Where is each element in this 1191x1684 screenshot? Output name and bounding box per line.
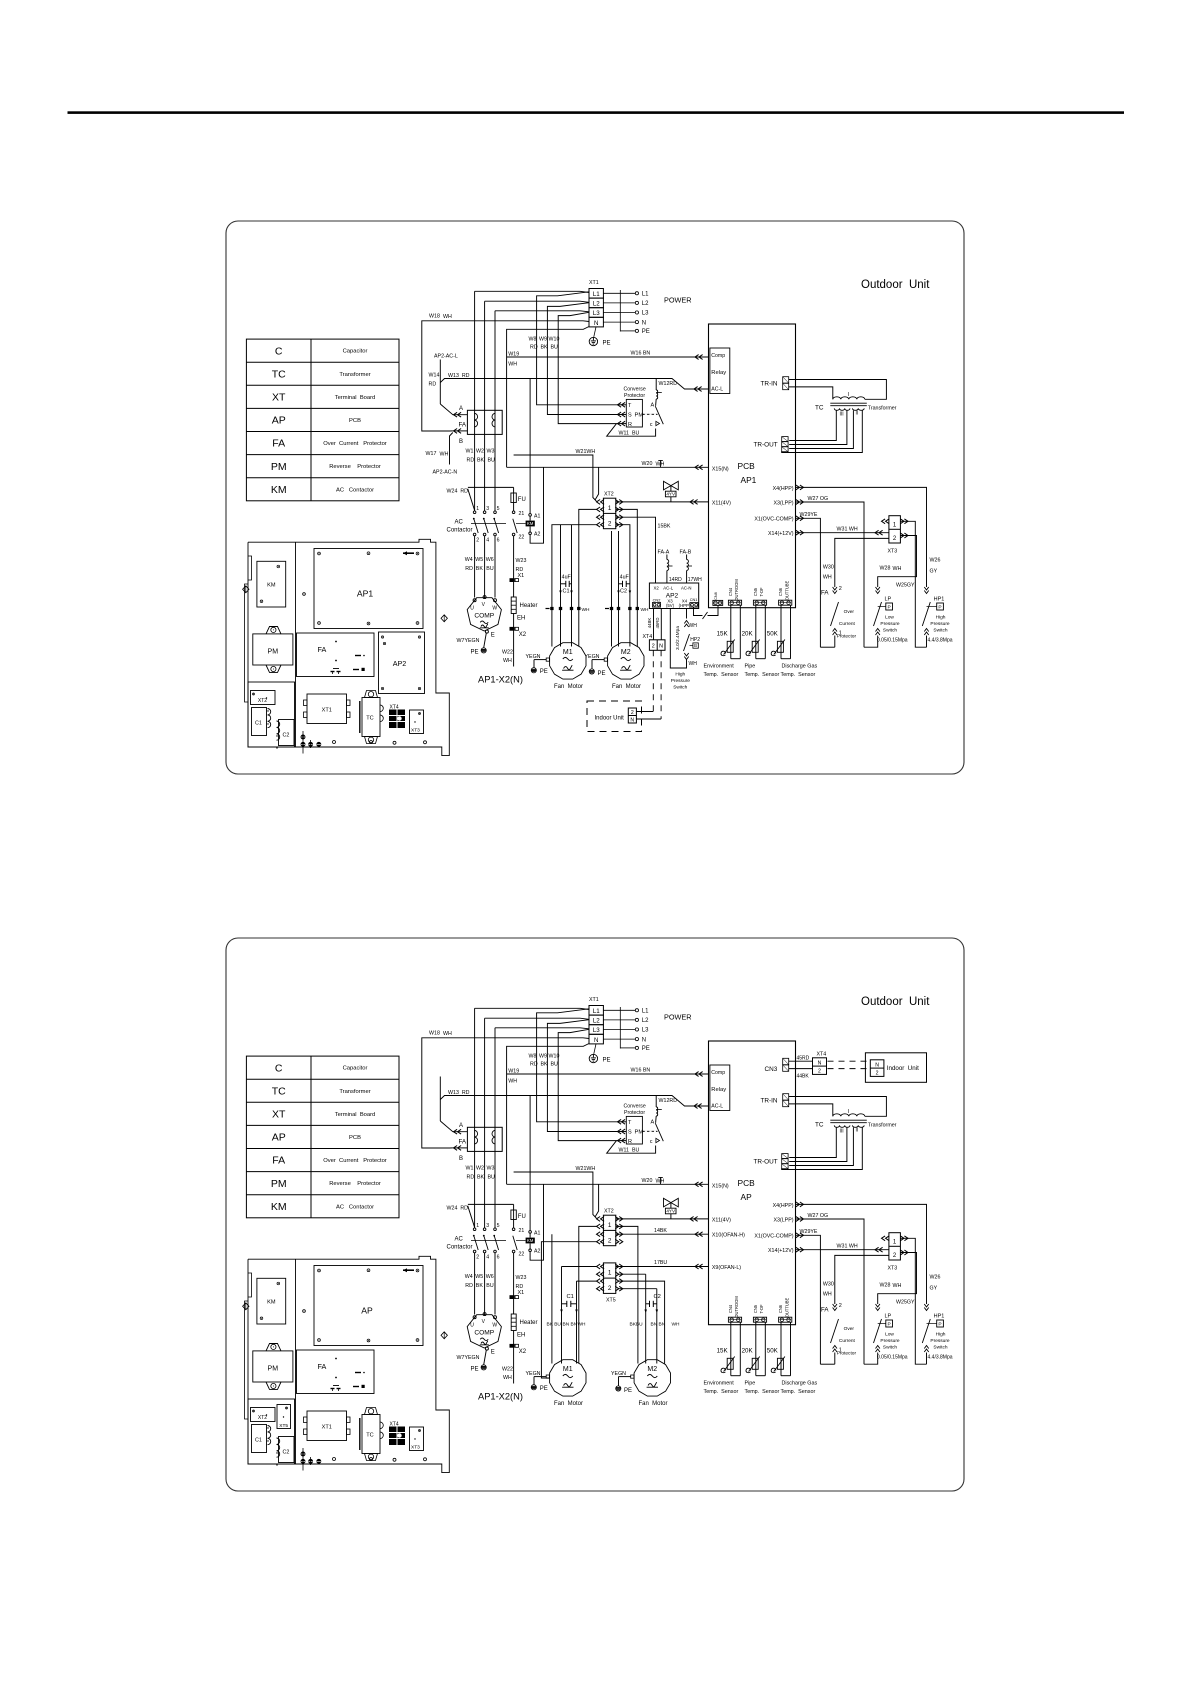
svg-text:XT3: XT3 <box>411 728 420 734</box>
PM contact blade <box>655 1123 663 1141</box>
contactor coil KM <box>526 1238 535 1244</box>
svg-text:U: U <box>470 1323 474 1329</box>
svg-text:14BK: 14BK <box>654 1228 667 1234</box>
svg-text:Relay: Relay <box>711 370 726 376</box>
svg-text:17WH: 17WH <box>688 577 702 583</box>
FA-B coil to AC-N <box>686 555 688 560</box>
svg-text:AP1-X2(N): AP1-X2(N) <box>478 675 523 685</box>
svg-text:C2: C2 <box>283 733 290 739</box>
svg-text:HP1: HP1 <box>934 1314 945 1320</box>
svg-text:W11 BU: W11 BU <box>619 1148 640 1154</box>
svg-text:B: B <box>459 1156 463 1162</box>
svg-text:FA-B: FA-B <box>680 550 692 556</box>
svg-text:44BK: 44BK <box>797 1073 810 1079</box>
svg-text:4uF: 4uF <box>620 575 630 581</box>
capacitor C1 in layout <box>252 708 267 736</box>
svg-text:c: c <box>650 422 653 428</box>
pipe temp sensor 20K <box>755 1322 757 1376</box>
svg-text:XT: XT <box>272 392 286 404</box>
svg-text:2: 2 <box>839 586 842 592</box>
svg-text:XT1: XT1 <box>589 997 599 1003</box>
overcurrent protector FA <box>467 410 502 434</box>
svg-text:W23: W23 <box>516 558 527 564</box>
svg-text:XT1: XT1 <box>322 1425 332 1431</box>
svg-text:L1: L1 <box>642 292 649 298</box>
lower left compartment <box>248 1399 295 1464</box>
svg-text:XT2: XT2 <box>258 1415 267 1421</box>
svg-text:C: C <box>275 345 283 357</box>
svg-text:AP2-AC-N: AP2-AC-N <box>433 470 458 476</box>
svg-text:X2: X2 <box>519 1349 527 1355</box>
contactor KM in layout <box>257 561 286 607</box>
svg-text:WH: WH <box>582 607 591 613</box>
svg-text:6: 6 <box>497 538 500 544</box>
svg-text:Relay: Relay <box>711 1087 726 1093</box>
svg-text:W30: W30 <box>823 1282 834 1288</box>
svg-text:BK: BK <box>477 458 485 464</box>
wire W3 BU phase L3 <box>495 1028 589 1029</box>
svg-text:WH: WH <box>823 1292 832 1298</box>
svg-text:X11(4V): X11(4V) <box>712 500 731 506</box>
wire W13 RD <box>440 1096 708 1107</box>
svg-text:3.0/2.4Mpa: 3.0/2.4Mpa <box>675 626 681 650</box>
M2 PE ground <box>616 1386 621 1391</box>
coil terminal A1 <box>529 1231 532 1234</box>
wire to FA terminal A <box>439 1077 441 1122</box>
svg-text:XT1: XT1 <box>589 280 599 286</box>
svg-text:FA: FA <box>459 1139 467 1146</box>
svg-text:TC: TC <box>272 368 286 380</box>
svg-text:Terminal Board: Terminal Board <box>335 395 376 401</box>
svg-text:Pipe: Pipe <box>745 1381 756 1387</box>
svg-text:W17: W17 <box>426 451 437 457</box>
svg-text:Pressure: Pressure <box>880 1338 900 1344</box>
wire XT2 to fan motor M2 right <box>616 509 638 646</box>
svg-text:C2: C2 <box>620 589 627 595</box>
reverse protector PM in layout <box>266 627 281 634</box>
svg-text:Switch: Switch <box>933 1345 947 1351</box>
svg-text:Environment: Environment <box>704 664 735 670</box>
wire W16 BN <box>507 356 709 358</box>
svg-text:3: 3 <box>486 506 489 512</box>
transformer TC <box>833 397 865 400</box>
svg-text:RD: RD <box>467 458 475 464</box>
svg-text:15K: 15K <box>717 1348 729 1355</box>
link CN1 to PCB CN8 <box>694 607 703 615</box>
svg-text:Transformer: Transformer <box>868 406 897 412</box>
svg-text:W25GY: W25GY <box>896 583 915 589</box>
svg-text:High: High <box>936 1332 946 1338</box>
svg-text:AC-L: AC-L <box>711 1104 723 1110</box>
PE ground symbol <box>594 327 596 337</box>
svg-text:COMP: COMP <box>474 1330 494 1337</box>
svg-text:CN4: CN4 <box>728 587 733 596</box>
svg-text:BU: BU <box>551 1062 559 1068</box>
solenoid valve 4YV <box>664 481 679 490</box>
discharge gas temp sensor 50K <box>780 1322 782 1376</box>
svg-text:4YV: 4YV <box>666 1209 676 1214</box>
svg-text:X10(OFAN-H): X10(OFAN-H) <box>712 1233 745 1239</box>
svg-text:Temp. Sensor: Temp. Sensor <box>704 672 739 678</box>
svg-text:4.4/3.8Mpa: 4.4/3.8Mpa <box>928 1355 953 1361</box>
svg-text:Over: Over <box>844 1326 855 1332</box>
svg-text:X3(LPP): X3(LPP) <box>773 1217 793 1223</box>
svg-text:W31 WH: W31 WH <box>837 526 858 532</box>
svg-text:A1: A1 <box>534 1230 540 1236</box>
svg-text:X11(4V): X11(4V) <box>712 1217 731 1223</box>
diamond marker left <box>243 1303 249 1310</box>
svg-text:KM: KM <box>271 484 287 496</box>
auxiliary contact 21 22 <box>512 511 515 514</box>
svg-text:X15(N): X15(N) <box>712 1184 729 1190</box>
wire W24 RD <box>468 1203 514 1205</box>
svg-text:AP1: AP1 <box>357 589 373 599</box>
svg-text:PE: PE <box>603 341 611 347</box>
svg-text:A: A <box>651 403 655 409</box>
svg-text:KM: KM <box>271 1201 287 1213</box>
svg-text:PCB: PCB <box>738 1178 756 1188</box>
svg-text:44BK: 44BK <box>647 618 652 629</box>
svg-text:AP: AP <box>272 1132 286 1144</box>
svg-text:YEGN: YEGN <box>585 654 600 660</box>
svg-text:TR-IN: TR-IN <box>761 1098 778 1105</box>
svg-text:Fan Motor: Fan Motor <box>554 1401 583 1407</box>
svg-text:WH: WH <box>508 1079 517 1085</box>
svg-text:CN6: CN6 <box>778 1304 783 1313</box>
svg-text:W25GY: W25GY <box>896 1300 915 1306</box>
svg-text:W12RD: W12RD <box>659 1098 678 1104</box>
fuse FU <box>513 1204 515 1210</box>
wire W9 BK to converse protector S <box>547 1020 617 1132</box>
svg-text:T-DF: T-DF <box>759 1304 764 1314</box>
svg-text:45RD: 45RD <box>797 1055 810 1061</box>
wire 17BU to X9(OFAN-L) <box>616 1266 709 1268</box>
svg-text:(HPP): (HPP) <box>679 603 691 608</box>
svg-text:X2: X2 <box>654 585 660 590</box>
svg-text:WH: WH <box>440 452 449 458</box>
svg-text:Temp. Sensor: Temp. Sensor <box>781 672 816 678</box>
solenoid valve 4YV <box>664 1198 679 1207</box>
indoor unit dashed box <box>587 701 642 732</box>
svg-text:AP1-X2(N): AP1-X2(N) <box>478 1392 523 1402</box>
svg-text:C1: C1 <box>567 1294 574 1300</box>
svg-text:W27 OG: W27 OG <box>808 1213 829 1219</box>
panel border (outdoor unit diagram 1) <box>226 221 964 774</box>
svg-text:PE: PE <box>471 1367 479 1373</box>
overcurrent protector FA in layout <box>297 1350 375 1394</box>
transformer secondary wires <box>789 411 836 441</box>
svg-text:BK: BK <box>477 1175 485 1181</box>
svg-text:W16 BN: W16 BN <box>631 351 651 357</box>
terminal XT3 in layout <box>410 710 424 734</box>
high pressure switch HP1 <box>924 1304 928 1311</box>
overcurrent protector FA <box>467 1127 502 1151</box>
svg-text:Comp: Comp <box>711 353 725 359</box>
svg-text:L1: L1 <box>593 291 600 298</box>
junction marks M1 leads <box>550 607 553 610</box>
terminal XT2 in layout <box>251 1408 276 1422</box>
compressor earth pin E <box>485 630 488 633</box>
svg-text:20K: 20K <box>742 1348 754 1355</box>
wire W25 GY XT3 to LP switch <box>878 536 917 588</box>
svg-text:W27 OG: W27 OG <box>808 496 829 502</box>
svg-text:21: 21 <box>519 511 525 517</box>
svg-text:II: II <box>856 1128 859 1134</box>
svg-text:22: 22 <box>519 535 525 541</box>
wire XT2 to fan motor M1 left <box>552 525 597 647</box>
wire XT2 to fan motor M1 right <box>579 509 597 646</box>
svg-text:Temp. Sensor: Temp. Sensor <box>745 672 780 678</box>
wire XT2-1 to X11(4V) <box>616 501 709 503</box>
svg-text:BU: BU <box>488 1175 496 1181</box>
svg-text:W28: W28 <box>880 1283 891 1289</box>
wires 45RD 44BK to XT4 <box>789 1060 813 1062</box>
wire W29 YE to overcurrent protector <box>796 518 821 647</box>
svg-text:BN BN: BN BN <box>563 1322 578 1328</box>
auxiliary contact 21 22 <box>512 1228 515 1231</box>
svg-text:17BU: 17BU <box>654 1260 667 1266</box>
svg-text:1: 1 <box>476 1223 479 1229</box>
svg-text:Low: Low <box>885 615 894 621</box>
svg-text:X14(+12V): X14(+12V) <box>768 1248 794 1254</box>
wire W11 BU <box>607 1141 656 1154</box>
svg-text:W12RD: W12RD <box>659 381 678 387</box>
svg-text:WH: WH <box>823 575 832 581</box>
svg-text:L2: L2 <box>642 301 649 307</box>
svg-text:PM: PM <box>271 461 287 473</box>
svg-text:WH: WH <box>893 1283 902 1289</box>
svg-text:Low: Low <box>885 1332 894 1338</box>
svg-text:L2: L2 <box>593 1018 600 1025</box>
svg-text:CN8: CN8 <box>714 592 718 600</box>
svg-text:PCB: PCB <box>738 461 756 471</box>
svg-text:XT4: XT4 <box>643 634 653 640</box>
svg-text:A1: A1 <box>534 513 540 519</box>
svg-text:III: III <box>840 412 844 418</box>
wire W21 WH <box>514 455 597 501</box>
svg-text:W: W <box>492 606 497 612</box>
terminal block XT3 <box>889 1233 901 1260</box>
svg-text:OUTROOM: OUTROOM <box>734 579 739 601</box>
svg-text:2: 2 <box>631 710 634 716</box>
wire W27 OG to low pressure switch <box>796 1219 865 1364</box>
svg-text:TR-OUT: TR-OUT <box>754 1159 778 1166</box>
svg-text:W22: W22 <box>502 1367 513 1373</box>
svg-text:L2: L2 <box>642 1018 649 1024</box>
wire XT2 to fan motor M1 left <box>551 1234 553 1363</box>
svg-text:COMP: COMP <box>474 613 494 620</box>
AC contactor KM main contacts <box>473 1228 476 1231</box>
wire W29 YE to overcurrent protector <box>796 1235 821 1364</box>
svg-text:BU: BU <box>486 1283 494 1289</box>
svg-text:X2: X2 <box>519 632 527 638</box>
compressor COMP <box>467 1315 501 1348</box>
wire W21 WH <box>514 1172 597 1218</box>
svg-text:S: S <box>628 413 632 419</box>
svg-text:4YV: 4YV <box>666 492 676 497</box>
wire to FA terminal A <box>439 360 441 405</box>
svg-text:OUTTUBE: OUTTUBE <box>784 580 789 600</box>
svg-text:A: A <box>459 406 463 412</box>
power disconnect line <box>619 1007 621 1049</box>
svg-text:CN4: CN4 <box>728 1304 733 1313</box>
svg-text:W29YE: W29YE <box>800 512 818 518</box>
wire XT3 to HP switch leg <box>900 1238 926 1364</box>
svg-text:M2: M2 <box>647 1366 657 1373</box>
svg-text:W16 BN: W16 BN <box>631 1068 651 1074</box>
svg-text:L1: L1 <box>593 1008 600 1015</box>
svg-text:EH: EH <box>517 616 525 622</box>
svg-text:AP: AP <box>741 1192 753 1202</box>
svg-text:Current: Current <box>839 1338 856 1344</box>
wire to high pressure switch <box>796 487 927 587</box>
wire W27 OG to low pressure switch <box>796 502 865 647</box>
wire W31 WH to XT3 <box>796 532 889 534</box>
svg-text:GY: GY <box>930 569 938 575</box>
high pressure switch HP2 loop <box>686 609 688 619</box>
terminal X2 <box>510 627 514 630</box>
svg-text:X1: X1 <box>518 573 525 579</box>
svg-text:CN3: CN3 <box>765 1066 778 1073</box>
svg-text:14RD: 14RD <box>669 577 682 583</box>
svg-text:FA-A: FA-A <box>658 550 670 556</box>
svg-text:W24 RD: W24 RD <box>447 489 469 495</box>
wire W20 WH <box>507 466 709 468</box>
svg-text:FA: FA <box>821 1307 829 1314</box>
svg-text:1: 1 <box>608 1222 612 1229</box>
svg-text:CN1: CN1 <box>690 597 698 602</box>
svg-text:Protector: Protector <box>624 393 645 399</box>
svg-text:W4: W4 <box>465 557 473 563</box>
svg-text:Contactor: Contactor <box>447 1245 473 1251</box>
wire to FA terminal B <box>453 1147 468 1149</box>
svg-text:X3(LPP): X3(LPP) <box>773 500 793 506</box>
transformer TC in layout <box>365 691 378 698</box>
svg-text:II: II <box>856 411 859 417</box>
svg-text:BU: BU <box>488 458 496 464</box>
wire W23 RD <box>513 536 515 579</box>
svg-text:Temp. Sensor: Temp. Sensor <box>781 1389 816 1395</box>
capacitor clamps <box>268 709 271 728</box>
contactor linkage dashed line <box>471 522 506 524</box>
svg-text:Pressure: Pressure <box>880 621 900 627</box>
PM dashed link to contact <box>642 1130 657 1132</box>
svg-text:WH: WH <box>503 658 512 664</box>
svg-text:XT1: XT1 <box>322 708 332 714</box>
svg-text:XT3: XT3 <box>888 1266 898 1272</box>
svg-text:BU: BU <box>551 345 559 351</box>
svg-text:Pipe: Pipe <box>745 664 756 670</box>
svg-text:HP1: HP1 <box>934 597 945 603</box>
wire W18 WH neutral <box>422 321 589 431</box>
svg-text:W28: W28 <box>880 566 891 572</box>
svg-text:AC-N: AC-N <box>681 585 692 590</box>
PM dashed link to contact <box>642 413 657 415</box>
compressor PE ground <box>481 648 486 653</box>
FA-A coil to AC-L <box>666 555 668 560</box>
svg-text:W20: W20 <box>642 1178 653 1184</box>
svg-text:KM: KM <box>527 521 534 526</box>
diamond marker right <box>441 615 447 622</box>
svg-text:2: 2 <box>476 538 479 544</box>
capacitor clamps <box>268 1426 271 1445</box>
svg-text:M1: M1 <box>563 1366 573 1373</box>
terminal XT5 in layout <box>277 1405 291 1429</box>
svg-text:AC: AC <box>455 1237 464 1243</box>
capacitor C2 in layout <box>279 720 295 746</box>
transformer TC <box>833 1114 865 1117</box>
svg-text:WH: WH <box>641 607 650 613</box>
wire W1 RD phase L1 <box>475 1008 589 1009</box>
svg-text:LP: LP <box>885 1314 892 1320</box>
svg-text:FA: FA <box>459 422 467 429</box>
svg-text:III: III <box>840 1129 844 1135</box>
wire W31 WH to XT3 <box>796 1249 889 1251</box>
svg-text:U: U <box>470 606 474 612</box>
svg-text:Transformer: Transformer <box>339 1089 370 1095</box>
svg-text:21: 21 <box>519 1228 525 1234</box>
svg-text:BN BN: BN BN <box>651 1322 666 1328</box>
svg-text:W22: W22 <box>502 650 513 656</box>
wire XT2 to fan motor M1 right <box>579 1226 597 1363</box>
svg-text:PE: PE <box>471 650 479 656</box>
svg-text:PE: PE <box>540 669 548 675</box>
wire W8 RD to converse protector T <box>537 292 618 405</box>
svg-text:N: N <box>630 718 634 724</box>
svg-text:Temp. Sensor: Temp. Sensor <box>704 1389 739 1395</box>
svg-text:Outdoor Unit: Outdoor Unit <box>861 279 930 291</box>
compressor relay block <box>710 1065 730 1111</box>
terminal board XT1 in layout <box>307 694 347 724</box>
svg-text:FA: FA <box>272 1155 285 1167</box>
svg-text:X1(OVC-COMP): X1(OVC-COMP) <box>754 1234 793 1240</box>
M1 PE ground <box>531 668 536 673</box>
mounting screws bottom row <box>301 735 305 739</box>
svg-text:W7YEGN: W7YEGN <box>457 1355 480 1361</box>
svg-text:I: I <box>848 1109 849 1115</box>
svg-text:4: 4 <box>486 538 489 544</box>
svg-text:W4: W4 <box>465 1274 473 1280</box>
svg-text:A: A <box>651 1120 655 1126</box>
svg-text:FA: FA <box>821 590 829 597</box>
svg-text:KM: KM <box>527 1238 534 1243</box>
compressor PE ground <box>481 1365 486 1370</box>
fan motor M2 <box>608 643 644 679</box>
svg-text:AC-L: AC-L <box>711 387 723 393</box>
svg-text:WH: WH <box>689 661 698 667</box>
svg-text:Over Current Protector: Over Current Protector <box>323 1158 387 1164</box>
svg-text:AC Contactor: AC Contactor <box>336 487 374 493</box>
svg-text:15BK: 15BK <box>658 524 671 530</box>
svg-text:PM: PM <box>271 1178 287 1190</box>
svg-text:2: 2 <box>608 1237 612 1244</box>
svg-text:OUTTUBE: OUTTUBE <box>784 1297 789 1317</box>
svg-text:Over Current Protector: Over Current Protector <box>323 441 387 447</box>
legend table <box>246 1056 399 1218</box>
high pressure switch HP1 <box>924 587 928 594</box>
svg-text:W30: W30 <box>823 565 834 571</box>
sub board AP2 in layout <box>379 632 425 694</box>
svg-text:20K: 20K <box>742 631 754 638</box>
POWER terminals L1 L2 L3 N PE <box>603 292 635 294</box>
svg-text:W18: W18 <box>429 314 440 320</box>
svg-text:A2: A2 <box>534 1249 540 1255</box>
svg-text:XT2: XT2 <box>604 1209 614 1215</box>
svg-text:22: 22 <box>519 1252 525 1258</box>
svg-text:2: 2 <box>876 1071 879 1077</box>
svg-text:W3: W3 <box>487 449 495 455</box>
low pressure switch LP <box>876 587 880 594</box>
